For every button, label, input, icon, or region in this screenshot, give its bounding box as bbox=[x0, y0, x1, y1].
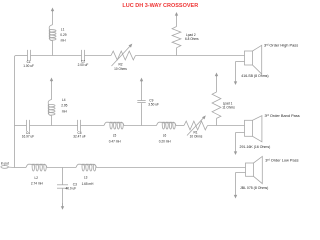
svg-text:1.65 mH: 1.65 mH bbox=[82, 182, 95, 186]
svg-text:16.97 uF: 16.97 uF bbox=[22, 135, 34, 139]
svg-text:L5: L5 bbox=[113, 134, 117, 138]
input terminal bbox=[1, 166, 8, 169]
resistor Lpad2 bbox=[176, 48, 178, 56]
wire input to bus bbox=[8, 166, 14, 168]
wire L5 to L6 bbox=[124, 125, 157, 127]
svg-text:L4: L4 bbox=[62, 98, 66, 102]
wire L3 to speaker bbox=[97, 167, 246, 169]
speaker low pass bbox=[246, 163, 254, 176]
wire C4 to C5 bbox=[30, 125, 79, 127]
svg-text:32.47 uF: 32.47 uF bbox=[73, 135, 85, 139]
svg-text:2.95: 2.95 bbox=[61, 104, 67, 108]
ground arrow above L1 bbox=[52, 10, 54, 12]
ground high pass speaker bbox=[236, 61, 245, 63]
wire mid row bus to C4 bbox=[15, 125, 27, 127]
inductor L3 bbox=[76, 164, 97, 171]
wire L2 to L3 bbox=[47, 167, 76, 169]
svg-text:291-16K (16 Ohms): 291-16K (16 Ohms) bbox=[240, 145, 271, 149]
ground band pass speaker bbox=[236, 132, 245, 134]
capacitor C2 bbox=[81, 50, 83, 61]
wire input bus bbox=[15, 56, 17, 168]
ground arrow below C3 bbox=[62, 203, 64, 207]
wire R1 to speaker bbox=[208, 125, 245, 127]
wiper arrow R1 bbox=[187, 117, 204, 135]
svg-text:L2: L2 bbox=[35, 176, 39, 180]
svg-text:mH: mH bbox=[62, 109, 68, 113]
capacitor C1 bbox=[27, 50, 29, 61]
svg-text:JBL 075 (8 Ohms): JBL 075 (8 Ohms) bbox=[240, 186, 268, 190]
svg-text:2.74 mH: 2.74 mH bbox=[31, 182, 44, 186]
svg-text:6.8 Ohms: 6.8 Ohms bbox=[185, 37, 199, 41]
ground arrow above Lpad1 bbox=[216, 75, 218, 77]
capacitor C9 bbox=[141, 103, 143, 125]
svg-text:10 Ohms: 10 Ohms bbox=[190, 135, 203, 139]
svg-text:416-SB (8 Ohms): 416-SB (8 Ohms) bbox=[241, 74, 268, 78]
wire bottom row bus to L2 bbox=[15, 167, 27, 169]
svg-text:2.00 uF: 2.00 uF bbox=[78, 63, 89, 67]
inductor L2 bbox=[26, 164, 47, 171]
ground low pass speaker bbox=[236, 172, 246, 174]
wire L6 to R1 bbox=[176, 125, 184, 127]
inductor L1 bbox=[52, 41, 54, 56]
svg-text:0.47 mH: 0.47 mH bbox=[109, 139, 122, 143]
svg-text:3rd Order Low Pass: 3rd Order Low Pass bbox=[265, 157, 298, 162]
resistor Lpad1 bbox=[216, 118, 218, 125]
capacitor C3 bbox=[62, 168, 64, 185]
svg-text:LUC DH 3-WAY CROSSOVER: LUC DH 3-WAY CROSSOVER bbox=[122, 3, 198, 9]
svg-text:11 Ohms: 11 Ohms bbox=[222, 106, 235, 110]
svg-text:mH: mH bbox=[61, 38, 67, 42]
variable resistor R1 bbox=[184, 121, 208, 130]
svg-text:In put: In put bbox=[1, 161, 9, 165]
ground arrow above C9 bbox=[141, 80, 143, 82]
capacitor C5 bbox=[77, 120, 79, 131]
variable resistor R2 bbox=[111, 51, 136, 60]
svg-text:0.29: 0.29 bbox=[60, 33, 66, 37]
svg-text:L6: L6 bbox=[163, 134, 167, 138]
inductor L4 bbox=[51, 115, 53, 125]
wiper arrow R2 bbox=[112, 46, 131, 66]
svg-text:1.00 uF: 1.00 uF bbox=[23, 64, 34, 68]
wire C1 to C2 bbox=[31, 55, 82, 57]
svg-text:3.50 uF: 3.50 uF bbox=[148, 103, 159, 107]
inductor L5 bbox=[104, 122, 124, 129]
svg-text:L3: L3 bbox=[84, 175, 88, 179]
svg-text:L1: L1 bbox=[61, 27, 65, 31]
speaker band pass bbox=[245, 120, 253, 136]
inductor L6 bbox=[157, 122, 177, 129]
ground arrow above Lpad2 bbox=[176, 15, 178, 17]
wire C5 to L5 bbox=[81, 125, 105, 127]
svg-text:40.0 uF: 40.0 uF bbox=[66, 187, 77, 191]
ground arrow above L4 bbox=[51, 80, 53, 82]
wire R2 to speaker bbox=[136, 55, 245, 57]
speaker high pass bbox=[245, 51, 253, 65]
svg-text:10 Ohms: 10 Ohms bbox=[114, 67, 127, 71]
svg-text:0.20 mH: 0.20 mH bbox=[159, 139, 172, 143]
wire top row segment bus to C1 bbox=[16, 55, 28, 57]
wire C2 to R2 bbox=[85, 55, 112, 57]
svg-text:3rd Order High Pass: 3rd Order High Pass bbox=[264, 42, 298, 47]
svg-text:3rd Order Band Pass: 3rd Order Band Pass bbox=[265, 113, 300, 118]
capacitor C4 bbox=[26, 120, 28, 131]
